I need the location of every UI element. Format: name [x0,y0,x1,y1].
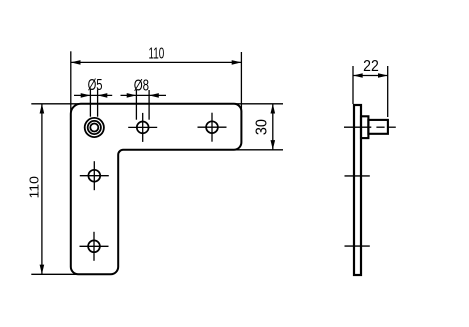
svg-text:110: 110 [27,176,41,199]
hole Ø8 top middle [128,113,157,142]
hole Ø8 left middle [80,161,109,190]
svg-text:22: 22 [363,57,379,75]
dimension 110 left [27,104,84,274]
side view boss [368,120,388,134]
countersunk hole (middle circle) [88,121,101,134]
dimension 110 top [71,44,242,115]
side view plate [354,105,361,275]
dimension 30 right [236,104,283,150]
svg-text:110: 110 [148,44,164,62]
countersunk hole (inner circle Ø5) [90,124,98,132]
bracket outline (front view) [71,104,242,274]
hole tick lower (side view) [345,245,370,247]
boss centerline [344,126,396,128]
svg-text:Ø8: Ø8 [134,75,150,93]
hole Ø8 left bottom [80,232,109,261]
hole Ø8 top right [198,113,227,142]
hole tick upper (side view) [345,175,370,177]
side view flange [361,116,368,138]
dimension 22 [353,57,388,117]
svg-text:Ø5: Ø5 [88,75,103,94]
dimension Ø5 [74,75,112,117]
dimension Ø8 [121,75,167,119]
svg-text:30: 30 [253,119,271,135]
countersunk hole (outer circle) [85,118,104,137]
